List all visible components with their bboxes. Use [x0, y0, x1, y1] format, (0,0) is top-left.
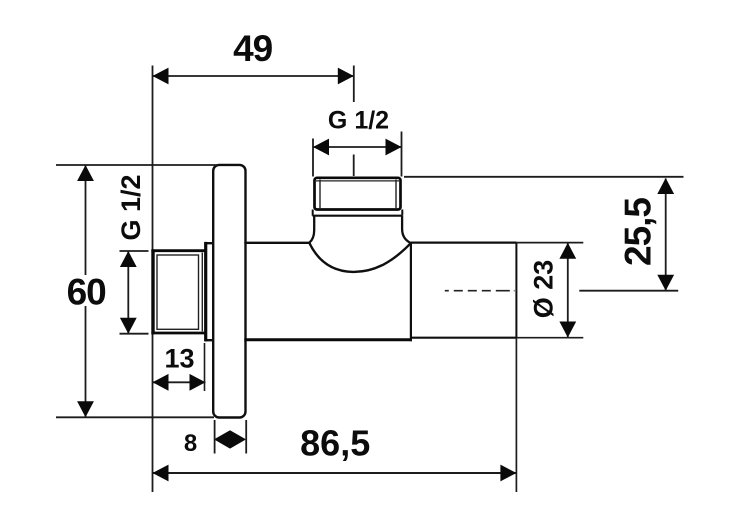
dim 8 dimension (diamond arrows): [214, 420, 246, 454]
node outlet pipe right end face: [515, 243, 517, 338]
node body / outlet pipe junction line: [410, 243, 412, 342]
svg-text:Ø 23: Ø 23: [529, 260, 559, 319]
svg-text:G 1/2: G 1/2: [116, 174, 146, 240]
node wall plate (rosette): [213, 165, 245, 418]
node top port left flare to body: [309, 216, 314, 243]
svg-text:60: 60: [67, 271, 107, 312]
wire: collar top edge between port boss and plate: [205, 242, 216, 244]
node outlet pipe bottom edge: [411, 337, 517, 339]
node saddle dip between top port and body: [309, 243, 411, 272]
dim 13 dimension line with arrows: [153, 343, 206, 391]
wire: wall face extension line (left reference): [152, 66, 154, 493]
node valve body bottom edge: [244, 338, 411, 341]
node top threaded port G 1/2 outer box: [315, 178, 401, 210]
node top port right flare to body: [402, 216, 411, 243]
dim 60 dimension line with arrows: [56, 165, 217, 417]
svg-text:G 1/2: G 1/2: [328, 107, 389, 135]
svg-text:13: 13: [164, 344, 194, 374]
node top port inner thread lines: [316, 180, 399, 210]
node boss face line of left inlet: [204, 242, 207, 342]
dim 86,5 dimension line with arrows: [153, 338, 517, 492]
dim diameter 23 dimension line with arrows: [516, 243, 583, 338]
svg-text:49: 49: [233, 28, 273, 69]
node left threaded port G 1/2 outer body: [151, 249, 205, 334]
svg-text:8: 8: [184, 430, 197, 457]
node outlet pipe top edge: [411, 242, 517, 244]
svg-text:25,5: 25,5: [618, 198, 659, 266]
dim G 1/2 top dimension line with arrows: [313, 132, 402, 177]
node top port collar band: [313, 210, 403, 216]
dim 25,5 dimension line with arrows: [404, 177, 684, 291]
svg-text:86,5: 86,5: [300, 423, 370, 464]
node valve body top edge (left of saddle): [244, 242, 309, 244]
node pipe centre line (dashed): [445, 290, 515, 292]
dim 49 dimension line with arrows: [153, 66, 354, 177]
dim G 1/2 left dimension line with arrows: [120, 251, 149, 334]
wire: collar bottom edge between port boss and plate: [205, 339, 216, 341]
node left port inner thread lines: [157, 253, 202, 332]
